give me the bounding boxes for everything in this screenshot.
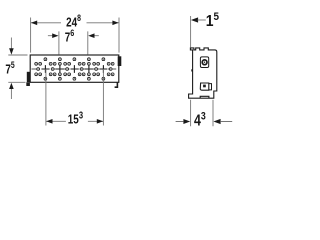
left bottom foot (26, 82, 30, 86)
fixing cross 3 (71, 65, 79, 73)
dim 24.8 arrows (31, 21, 37, 26)
side view screw boss (200, 57, 208, 68)
svg-text:15: 15 (206, 11, 219, 30)
side view bottom notch (200, 96, 209, 98)
hole pattern rings (44, 58, 47, 61)
label 15.3 (68, 110, 83, 127)
fixing cross 1 (42, 65, 50, 73)
label 7.6 (65, 27, 75, 45)
label 7.5 (5, 60, 15, 77)
front view plate outline (30, 55, 119, 82)
dim 7.5 extension lines (8, 55, 27, 82)
svg-text:153: 153 (68, 110, 83, 127)
dim 24.8 line (31, 22, 119, 24)
side view lower bracket (200, 83, 209, 90)
left edge tick (191, 69, 193, 71)
svg-text:43: 43 (194, 111, 206, 129)
dim 4.3 extension lines (191, 100, 213, 127)
dim 15.3 extension lines (46, 69, 104, 126)
dim 7.6 arrows (52, 33, 58, 38)
center line dash-dot (32, 68, 117, 70)
side view profile outline with top ribs (189, 48, 217, 98)
dim 15.3 line (46, 120, 104, 122)
dim 1.5 extension line (190, 16, 192, 48)
right bottom hook (115, 82, 118, 87)
dim 1.5 arrow (191, 17, 198, 22)
dim 7.5 arrow tails (10, 38, 12, 100)
right end tab (118, 56, 122, 66)
dim 4.3 arrows (183, 119, 190, 124)
fixing cross 2 (56, 65, 64, 73)
dim 7.6 extension lines (59, 31, 88, 54)
dim 15.3 arrows (46, 119, 52, 124)
svg-text:75: 75 (5, 60, 15, 77)
dim 7.6 arrow tails (48, 35, 99, 37)
dim 24.8 extension lines (31, 18, 119, 53)
dim 1.5 arrow tail (198, 19, 206, 21)
fixing cross 4 (85, 65, 93, 73)
label 24.8 (66, 13, 81, 30)
dim 4.3 arrow tails (176, 121, 233, 123)
fixing cross 5 (100, 65, 108, 73)
left end tab (27, 72, 31, 82)
label 1.5 (206, 11, 219, 30)
label 4.3 (194, 111, 206, 129)
dim 7.5 arrows (9, 48, 14, 54)
